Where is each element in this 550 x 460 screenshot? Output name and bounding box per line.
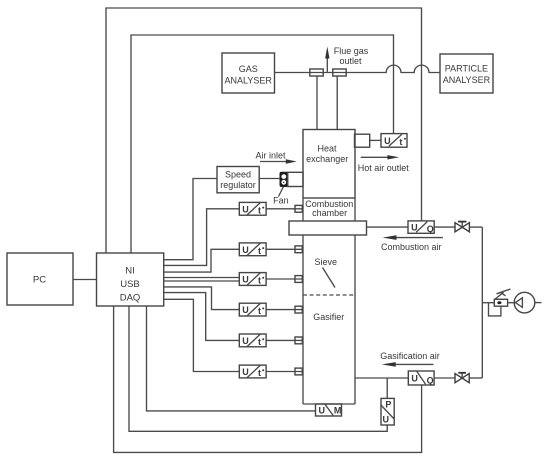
svg-text:Air inlet: Air inlet	[255, 150, 286, 160]
svg-text:Q: Q	[427, 224, 434, 234]
wire stub to U/t heat exchanger	[370, 139, 381, 141]
svg-text:outlet: outlet	[339, 56, 362, 66]
wire PC to DAQ	[73, 279, 97, 281]
pressure regulator	[489, 289, 511, 316]
wire w2 DAQ to sensor T1	[164, 209, 240, 266]
stub T5	[295, 337, 302, 344]
manifold combustion air inlet	[289, 221, 367, 235]
svg-text:P: P	[385, 400, 391, 410]
svg-text:GAS: GAS	[239, 64, 258, 74]
wire T3 to column	[266, 278, 303, 280]
svg-text:t: t	[258, 205, 261, 215]
sensor U/t T3	[239, 273, 266, 286]
svg-text:Speed: Speed	[225, 170, 251, 180]
sensor U/t T2	[239, 243, 266, 256]
svg-text:Combustion air: Combustion air	[381, 242, 442, 252]
svg-text:U: U	[242, 305, 249, 315]
wire speed regulator to fan	[259, 178, 280, 180]
wire stack pipe right	[336, 76, 338, 130]
svg-text:PC: PC	[33, 275, 46, 286]
label Fan with leader	[279, 187, 284, 197]
svg-text:t: t	[258, 276, 261, 286]
arrow hot air outlet	[361, 156, 388, 158]
svg-text:Fan: Fan	[273, 195, 289, 205]
svg-text:Q: Q	[427, 375, 434, 385]
svg-text:t: t	[399, 137, 402, 147]
sensor U/M	[316, 404, 342, 416]
svg-text:U: U	[383, 414, 390, 424]
svg-text:U: U	[411, 373, 418, 383]
box heat exchanger	[303, 130, 355, 199]
stub T1	[295, 205, 302, 212]
wire valve1 to right riser	[470, 226, 483, 228]
sensor U/t T5	[239, 334, 266, 347]
svg-text:Heat: Heat	[317, 144, 337, 154]
box Speed regulator	[217, 167, 259, 193]
svg-text:t: t	[258, 337, 261, 347]
stub T3	[295, 276, 302, 283]
wire DAQ bottom to U/M	[147, 306, 316, 411]
wire w1 DAQ to speed regulator	[164, 179, 217, 260]
wire T2 to column	[266, 248, 303, 250]
wire w8 DAQ to sensor T6	[164, 299, 240, 371]
box NI USB DAQ	[97, 253, 164, 306]
wire w4 DAQ to sensor T3	[164, 277, 240, 279]
wire regulator to pump	[508, 302, 515, 304]
wire DAQ bottom to P/U	[129, 306, 387, 431]
svg-text:Sieve: Sieve	[315, 257, 338, 267]
wire w6 DAQ to sensor T4	[164, 287, 240, 310]
sensor P/U	[381, 398, 394, 425]
svg-text:DAQ: DAQ	[120, 293, 141, 304]
wire DAQ bottom to U/Q-gasification	[114, 306, 422, 452]
wire T4 to column	[266, 309, 303, 311]
flange F1 on flue line	[310, 69, 323, 76]
arrow flue gas outlet	[326, 58, 328, 74]
svg-text:U: U	[242, 204, 249, 214]
wire w5 DAQ to sensor T3	[164, 280, 240, 282]
svg-text:Hot air outlet: Hot air outlet	[358, 163, 410, 173]
wire U/Q to valve2	[434, 377, 455, 379]
sensor U/Q combustion	[408, 221, 434, 234]
flange F2 on flue line	[333, 69, 346, 76]
svg-text:t: t	[258, 306, 261, 316]
svg-text:Gasifier: Gasifier	[313, 312, 344, 322]
stub T2	[295, 246, 302, 253]
wire flue gas line with two hops	[275, 65, 441, 72]
wire w7 DAQ to sensor T5	[164, 293, 240, 341]
svg-text:t: t	[258, 368, 261, 378]
wire riser to regulator	[482, 302, 494, 304]
wire outer DAQ-to-U/Q-combustion loop	[106, 8, 422, 253]
svg-text:ANALYSER: ANALYSER	[225, 76, 273, 86]
wire T5 to column	[266, 339, 303, 341]
svg-text:exchanger: exchanger	[306, 154, 348, 164]
svg-text:Gasification air: Gasification air	[380, 351, 440, 361]
svg-text:USB: USB	[120, 279, 140, 290]
fan duct to column	[288, 172, 303, 186]
svg-text:U: U	[318, 406, 325, 416]
svg-text:U: U	[242, 367, 249, 377]
stub box heat exchanger right	[355, 134, 370, 147]
dashed sieve line	[303, 294, 355, 296]
arrow air inlet	[260, 161, 286, 163]
svg-text:NI: NI	[125, 266, 135, 277]
wire inner DAQ-to-U/t-heatexchanger loop	[131, 35, 394, 253]
sensor U/t T4	[239, 303, 266, 316]
svg-text:t: t	[258, 246, 261, 256]
wire stack pipe left	[316, 76, 318, 130]
sensor U/t T1	[239, 202, 266, 215]
stub T6	[295, 368, 302, 375]
wire w3 DAQ to sensor T2	[164, 249, 240, 272]
svg-text:M: M	[334, 406, 342, 416]
svg-text:U: U	[242, 245, 249, 255]
pump	[514, 292, 535, 313]
stub T4	[295, 306, 302, 313]
box GAS ANALYSER	[222, 53, 275, 93]
svg-text:regulator: regulator	[220, 180, 256, 190]
wire right riser	[481, 227, 483, 378]
gasifier column walls	[302, 235, 304, 404]
arrow gasification air	[395, 363, 434, 365]
arrow combustion air	[396, 237, 444, 239]
svg-text:U: U	[242, 275, 249, 285]
wire valve2 to riser	[469, 377, 483, 379]
sensor U/Q gasification	[408, 371, 434, 385]
sensor U/t heat exchanger	[381, 134, 407, 148]
svg-text:U: U	[242, 336, 249, 346]
wire gas line to P/U	[386, 378, 388, 398]
svg-text:ANALYSER: ANALYSER	[443, 75, 491, 85]
wire T6 to column	[266, 371, 303, 373]
box PARTICLE ANALYSER	[440, 54, 493, 93]
wire gasification line from column	[355, 377, 408, 379]
fan	[280, 172, 288, 186]
wire U/Q to valve1	[434, 226, 455, 228]
combustion chamber walls	[302, 198, 304, 221]
wire pump outlet	[535, 302, 542, 304]
svg-text:PARTICLE: PARTICLE	[445, 64, 488, 74]
wire T1 to column	[266, 208, 303, 210]
svg-text:Flue gas: Flue gas	[334, 46, 369, 56]
valve V1	[455, 222, 469, 232]
box PC	[7, 253, 73, 305]
valve V2	[455, 373, 469, 383]
svg-text:chamber: chamber	[312, 208, 347, 218]
wire manifold to U/Q	[367, 226, 409, 228]
sensor U/t T6	[239, 365, 266, 378]
